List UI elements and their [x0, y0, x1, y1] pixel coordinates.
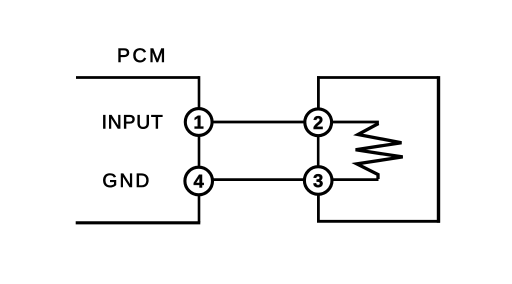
sensor box top edge	[317, 76, 439, 79]
pin 4 circle	[185, 167, 213, 195]
wire pin 1 to pin 4	[198, 136, 201, 168]
svg-text:1: 1	[194, 112, 204, 133]
svg-text:PCM: PCM	[117, 45, 168, 67]
wire pin 4 down to PCM bottom edge	[198, 195, 201, 223]
PCM connector top edge wire	[76, 76, 199, 79]
wire pin 3 down to sensor box bottom	[317, 195, 320, 223]
svg-text:2: 2	[313, 112, 323, 133]
wire pin 2 to pin 3	[317, 136, 320, 167]
svg-text:4: 4	[194, 171, 205, 192]
wire pin 1 to pin 2	[212, 121, 305, 124]
wire pin 4 to pin 3	[212, 178, 305, 181]
resistor top lead wire	[333, 122, 378, 125]
svg-text:3: 3	[313, 170, 323, 191]
sensor box right edge	[437, 76, 440, 223]
pin 1 circle	[185, 109, 212, 136]
PCM connector bottom edge wire	[76, 221, 201, 224]
wire from PCM top edge down to pin 1	[198, 76, 201, 108]
resistor bottom lead wire	[333, 178, 379, 181]
svg-text:INPUT: INPUT	[102, 112, 164, 133]
svg-text:GND: GND	[102, 171, 151, 192]
wire pin 2 up to sensor box top	[317, 76, 320, 108]
resistor zigzag element	[356, 124, 403, 180]
pin 3 circle	[304, 167, 332, 195]
pin 2 circle	[305, 109, 332, 136]
sensor box bottom edge	[317, 220, 440, 223]
